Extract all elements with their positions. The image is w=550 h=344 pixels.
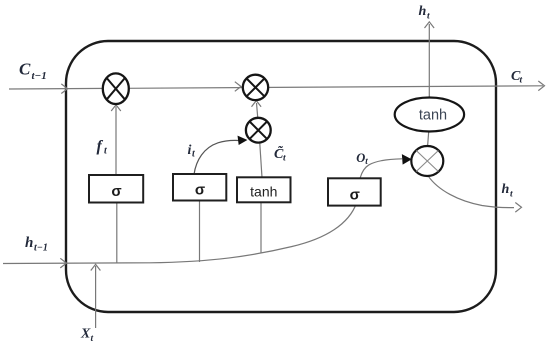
box sigma (input gate) bbox=[173, 174, 226, 201]
wire: h_t vertical up through tanh ellipse bbox=[428, 24, 430, 98]
arrowhead h_{t-1} at cell border bbox=[60, 258, 66, 268]
wire: C_{t-1} horizontal cell-state line bbox=[9, 86, 543, 89]
multiplier circle (output gate) bbox=[411, 146, 443, 176]
wire: h_{t-1} input line and long curve to output gate multiplier bbox=[3, 159, 402, 264]
wire: output multiplier curve to h_t right arrow bbox=[428, 176, 514, 207]
box sigma (forget gate) bbox=[89, 175, 143, 203]
wire: box2 down to h line bbox=[199, 201, 201, 262]
wire: box3 down to h line bbox=[260, 202, 262, 252]
svg-text:h: h bbox=[502, 182, 510, 197]
svg-text:t: t bbox=[510, 190, 513, 200]
svg-text:t: t bbox=[520, 76, 523, 86]
svg-text:tanh: tanh bbox=[419, 108, 447, 124]
svg-text:tanh: tanh bbox=[250, 184, 277, 200]
arrowhead on C line before middle multiplier bbox=[235, 82, 241, 92]
LSTM cell body rounded rectangle bbox=[66, 41, 496, 312]
wire: ellipse to output multiplier bbox=[428, 132, 429, 146]
tanh ellipse bbox=[395, 98, 464, 132]
svg-text:t−1: t−1 bbox=[34, 243, 48, 254]
wire: box3 tanh up to candidate multiplier bbox=[260, 144, 262, 178]
box sigma (output gate) bbox=[328, 178, 381, 205]
svg-text:t: t bbox=[427, 12, 430, 22]
svg-text:t: t bbox=[283, 154, 286, 164]
svg-text:i: i bbox=[188, 143, 192, 158]
wire: box1 down to h line bbox=[116, 203, 118, 264]
solid arrowhead into output multiplier (o_t path) bbox=[402, 155, 411, 164]
svg-text:h: h bbox=[25, 235, 33, 251]
svg-text:h: h bbox=[419, 4, 427, 19]
multiplier circle (cell-state add position, drawn as x) bbox=[243, 75, 268, 100]
svg-text:t−1: t−1 bbox=[32, 70, 47, 82]
wire: box1 sigma up to forget multiplier (f_t) bbox=[115, 107, 117, 176]
svg-text:σ: σ bbox=[350, 187, 360, 204]
multiplier circle (input gate) bbox=[246, 118, 271, 143]
box tanh (candidate) bbox=[237, 177, 291, 202]
svg-text:O: O bbox=[356, 151, 365, 165]
arrowhead C_t output bbox=[538, 81, 544, 91]
wire: between the two multipliers (arrow up) bbox=[257, 103, 258, 119]
wire: i_t curved arrow from box2 to input multiplier bbox=[194, 140, 239, 174]
svg-text:σ: σ bbox=[195, 182, 205, 199]
svg-text:X: X bbox=[80, 327, 91, 342]
wire: X_t input arrow bbox=[95, 266, 97, 328]
arrowhead on C line at cell border bbox=[61, 84, 67, 94]
svg-text:σ: σ bbox=[111, 183, 121, 200]
svg-text:t: t bbox=[91, 334, 94, 344]
svg-text:C: C bbox=[19, 60, 31, 79]
multiplier circle (forget gate) bbox=[103, 73, 129, 104]
